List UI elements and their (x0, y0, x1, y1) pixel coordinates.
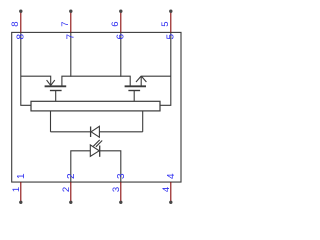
svg-text:2: 2 (61, 187, 72, 192)
svg-text:4: 4 (161, 187, 172, 192)
svg-text:1: 1 (16, 173, 27, 179)
svg-text:3: 3 (116, 173, 127, 179)
svg-text:4: 4 (166, 173, 177, 179)
svg-text:6: 6 (110, 21, 121, 26)
svg-text:3: 3 (111, 187, 122, 192)
svg-text:8: 8 (10, 21, 21, 26)
svg-text:1: 1 (11, 187, 22, 192)
svg-text:6: 6 (115, 33, 126, 39)
svg-text:7: 7 (65, 33, 76, 39)
svg-text:8: 8 (15, 33, 26, 39)
svg-text:5: 5 (160, 21, 171, 26)
svg-text:7: 7 (60, 21, 71, 26)
svg-text:2: 2 (66, 173, 77, 179)
svg-text:5: 5 (165, 33, 176, 39)
